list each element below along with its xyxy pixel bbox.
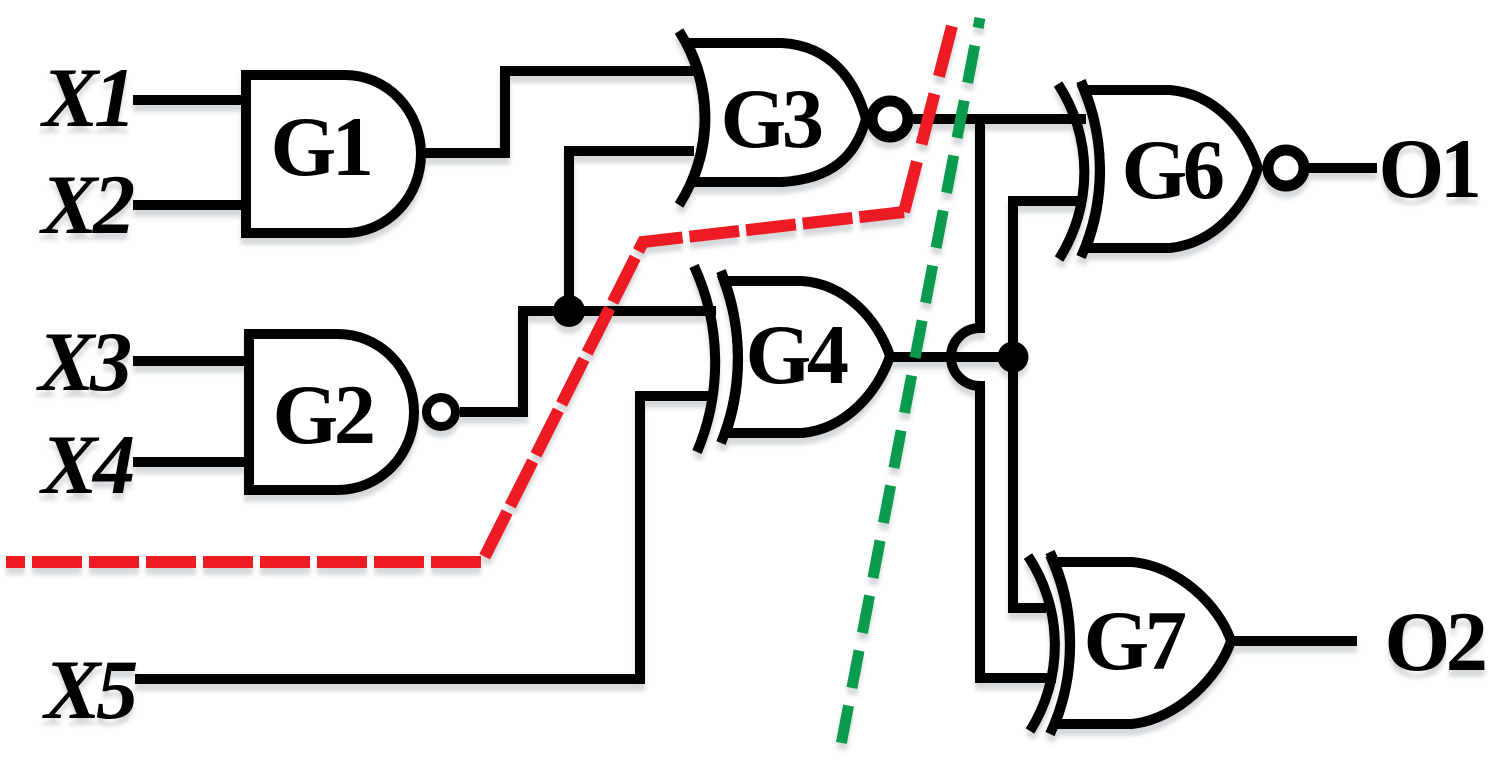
wire X3 to G2 — [133, 356, 245, 366]
svg-text:X3: X3 — [35, 316, 130, 409]
wire X4 to G2 — [133, 457, 245, 467]
red dashed partition line steep segment — [904, 22, 953, 212]
wire G4 output to node B — [890, 352, 1013, 362]
wire G6 output to O1 — [1308, 163, 1377, 173]
wire G3 output branch down with hop over G4 output, to G7 lower input — [951, 119, 1056, 678]
and gate G1 — [246, 75, 421, 233]
svg-text:O2: O2 — [1385, 596, 1485, 689]
wire G3 output to G6 upper input — [913, 114, 1086, 124]
wire node A to G3 lower input — [569, 151, 694, 311]
wire X2 to G1 — [133, 200, 245, 210]
wire G2 output to G4 upper input — [460, 311, 716, 412]
svg-text:G1: G1 — [271, 101, 370, 194]
wire G1 output to G3 upper input — [413, 71, 694, 153]
svg-text:X2: X2 — [38, 159, 134, 252]
wire X5 to G4 lower input — [135, 396, 716, 679]
green dashed partition line — [841, 18, 980, 745]
svg-text:G7: G7 — [1084, 595, 1186, 688]
nor gate G3 — [679, 31, 908, 205]
svg-text:X5: X5 — [41, 644, 137, 737]
wire node B down to G7 upper input — [1013, 357, 1046, 608]
node A junction dot — [553, 295, 585, 327]
svg-text:G6: G6 — [1122, 124, 1223, 217]
svg-text:X4: X4 — [38, 419, 133, 512]
node B junction dot — [998, 342, 1029, 373]
xnor gate G6 — [1058, 81, 1304, 259]
wire G7 output to O2 — [1229, 636, 1357, 646]
svg-text:G4: G4 — [746, 309, 848, 402]
wire node B up to G6 lower input — [1013, 201, 1086, 357]
red dashed partition line — [6, 212, 904, 562]
xor gate G7 — [1028, 552, 1231, 734]
svg-text:G2: G2 — [273, 369, 373, 462]
nand gate G2 — [249, 334, 456, 490]
wire X1 to G1 — [133, 95, 245, 105]
svg-text:O1: O1 — [1379, 123, 1478, 216]
svg-text:X1: X1 — [39, 52, 132, 145]
xor gate G4 — [694, 266, 890, 452]
svg-text:G3: G3 — [721, 73, 822, 166]
